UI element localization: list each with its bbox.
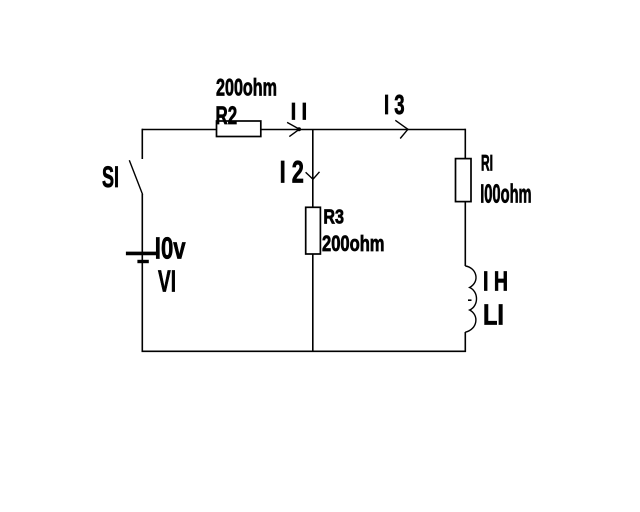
wire right vertical lower (inductor to bottom) xyxy=(464,332,466,352)
wire left vertical upper (above switch) xyxy=(141,129,143,159)
svg-text:R3: R3 xyxy=(323,206,344,228)
svg-text:I 3: I 3 xyxy=(384,89,405,120)
svg-text:I H: I H xyxy=(483,265,508,296)
arrow I3 (pointing right on top wire) xyxy=(395,120,408,138)
switch S1 blade xyxy=(129,160,142,194)
arrow I1 (pointing right on top wire) xyxy=(287,122,299,136)
wire middle vertical lower (R3 to bottom) xyxy=(312,254,314,352)
wire left vertical lower (below switch, through battery, to bottom) xyxy=(141,194,143,352)
svg-text:I I: I I xyxy=(291,98,307,125)
svg-text:I0v: I0v xyxy=(155,231,186,266)
svg-text:200ohm: 200ohm xyxy=(322,231,385,256)
inductor small tick mark xyxy=(468,299,472,301)
wire bottom horizontal xyxy=(142,350,467,352)
resistor R1 body xyxy=(456,159,472,202)
battery V1 short plate xyxy=(137,260,148,263)
svg-text:RI: RI xyxy=(481,151,493,176)
inductor L1 coil (three arcs) xyxy=(465,266,476,332)
wire middle vertical upper (junction to R3) xyxy=(312,130,314,208)
resistor R2 body xyxy=(217,121,261,137)
svg-text:LI: LI xyxy=(483,299,504,331)
wire top horizontal left segment xyxy=(142,129,217,131)
svg-text:200ohm: 200ohm xyxy=(216,75,277,102)
arrow I2 (pointing down on middle wire) xyxy=(306,172,320,179)
wire top horizontal right segment xyxy=(261,129,466,131)
wire right vertical middle (R1 to inductor) xyxy=(464,202,466,266)
svg-text:VI: VI xyxy=(158,263,176,298)
svg-text:I00ohm: I00ohm xyxy=(480,180,531,208)
arrow I1 tip dot xyxy=(297,127,301,131)
svg-text:I 2: I 2 xyxy=(280,153,304,189)
svg-text:SI: SI xyxy=(102,161,119,194)
svg-text:R2: R2 xyxy=(216,103,238,130)
resistor R3 body xyxy=(306,207,321,254)
battery V1 long plate xyxy=(126,252,159,256)
wire right vertical upper (top corner to R1) xyxy=(464,129,466,159)
